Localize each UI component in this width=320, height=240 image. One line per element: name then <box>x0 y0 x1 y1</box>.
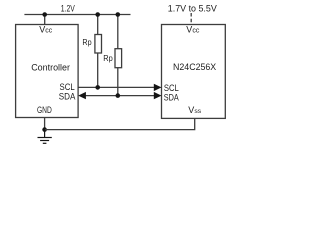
node junction Rp1 rail <box>95 12 100 17</box>
arrowhead SDA into controller <box>78 92 86 99</box>
wire SCL net <box>78 86 157 88</box>
svg-text:1.7V to 5.5V: 1.7V to 5.5V <box>168 3 218 13</box>
svg-text:N24C256X: N24C256X <box>173 62 216 72</box>
arrowhead SDA into eeprom <box>154 92 162 99</box>
svg-text:Controller: Controller <box>31 62 70 72</box>
ground symbol <box>38 130 52 144</box>
node junction Vcc controller <box>42 12 47 17</box>
wire GND lead controller <box>44 118 46 130</box>
svg-text:1.2V: 1.2V <box>61 4 75 14</box>
node junction Rp2 rail <box>116 12 121 17</box>
svg-text:SDA: SDA <box>59 92 76 102</box>
wire Rp1 lower lead <box>97 53 99 87</box>
wire 1.2V rail <box>24 14 130 16</box>
wire Rp2 upper lead <box>117 15 119 50</box>
svg-text:GND: GND <box>37 105 52 115</box>
wire SDA net <box>82 95 157 97</box>
wire dashed Vcc lead N24C256X <box>190 13 192 24</box>
svg-text:SCL: SCL <box>164 83 179 93</box>
wire Vcc lead controller <box>44 15 46 25</box>
controller U1 box <box>16 25 79 118</box>
svg-text:SDA: SDA <box>164 93 179 103</box>
eeprom U2 N24C256X box <box>162 25 226 119</box>
svg-text:Rp: Rp <box>82 37 91 47</box>
node junction Rp2 SDA <box>116 93 121 98</box>
arrowhead SCL into eeprom <box>154 84 162 91</box>
node junction GND <box>42 127 47 132</box>
node junction Rp1 SCL <box>95 85 100 90</box>
resistor Rp1 <box>95 35 102 54</box>
wire Rp2 lower lead <box>117 68 119 96</box>
wire ground rail to Vss <box>45 118 195 129</box>
svg-text:Rp: Rp <box>103 53 113 63</box>
wire Rp1 upper lead <box>97 15 99 36</box>
resistor Rp2 <box>115 49 122 68</box>
